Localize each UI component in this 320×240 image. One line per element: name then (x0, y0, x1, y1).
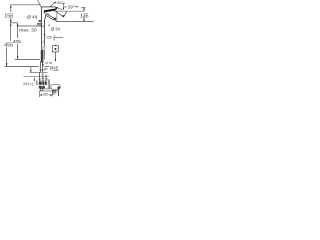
svg-text:Ø45: Ø45 (50, 66, 59, 71)
svg-text:135: 135 (80, 13, 89, 19)
svg-text:56°: 56° (57, 0, 63, 5)
svg-text:150: 150 (42, 92, 48, 96)
svg-text:71: 71 (30, 82, 34, 86)
svg-text:Ø 48: Ø 48 (27, 14, 38, 20)
svg-text:39°: 39° (68, 4, 75, 9)
svg-text:Ø 34: Ø 34 (51, 27, 61, 32)
svg-text:105: 105 (46, 36, 52, 40)
svg-text:158: 158 (4, 13, 13, 19)
svg-text:max. 30: max. 30 (19, 27, 37, 33)
svg-text:405: 405 (13, 39, 21, 45)
svg-text:Ø 35: Ø 35 (45, 61, 52, 65)
svg-text:455: 455 (4, 43, 13, 49)
